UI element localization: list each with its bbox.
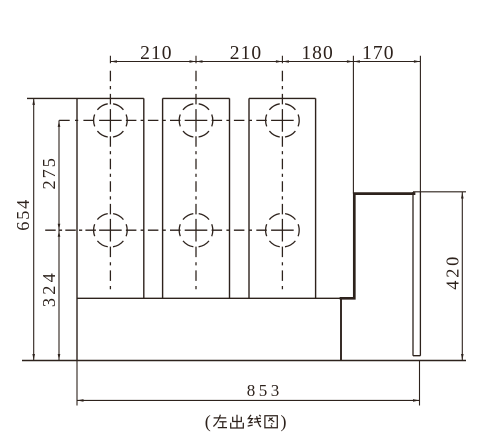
svg-text:210: 210 bbox=[230, 43, 263, 64]
svg-text:): ) bbox=[281, 412, 287, 433]
svg-text:180: 180 bbox=[301, 43, 334, 64]
svg-text:853: 853 bbox=[247, 381, 283, 400]
svg-text:(: ( bbox=[205, 412, 211, 433]
svg-text:420: 420 bbox=[443, 254, 463, 290]
svg-text:275: 275 bbox=[39, 156, 59, 189]
svg-text:170: 170 bbox=[362, 43, 395, 64]
svg-text:654: 654 bbox=[13, 198, 33, 231]
svg-text:324: 324 bbox=[39, 270, 59, 307]
svg-text:210: 210 bbox=[140, 43, 173, 64]
